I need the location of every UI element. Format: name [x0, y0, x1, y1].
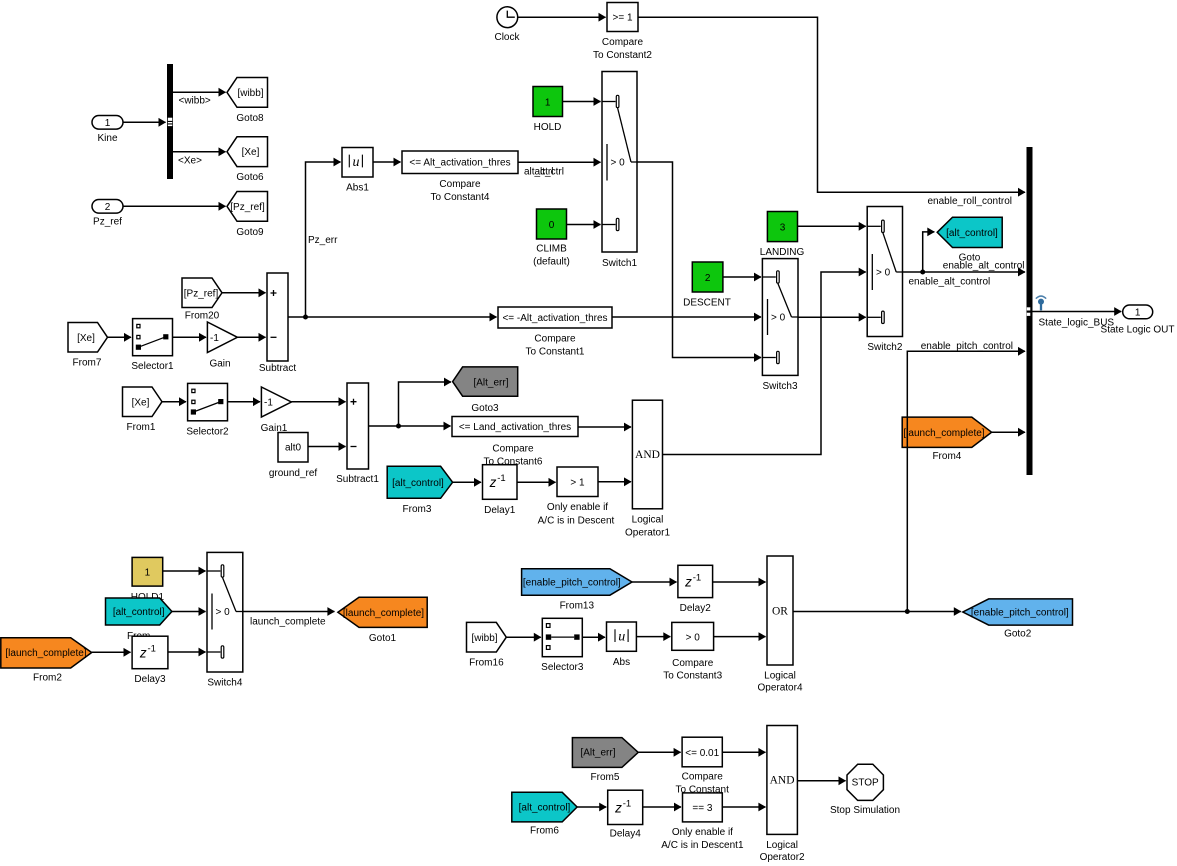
Only enable if A/C is in Descent (> 1)	[538, 467, 615, 527]
svg-text:From4: From4	[932, 451, 961, 462]
svg-text:[Xe]: [Xe]	[77, 333, 95, 344]
Compare To Constant4	[402, 151, 518, 203]
Logical Operator4 OR	[757, 556, 802, 693]
svg-text:From1: From1	[127, 422, 156, 433]
svg-text:<= Alt_activation_thres: <= Alt_activation_thres	[409, 158, 510, 169]
svg-text:z: z	[684, 574, 692, 589]
svg-text:STOP: STOP	[852, 778, 879, 789]
svg-text:To Constant1: To Constant1	[526, 347, 585, 358]
wire Gain to Subtract minus	[237, 336, 265, 338]
svg-text:From16: From16	[469, 658, 504, 669]
svg-text:[launch_complete]: [launch_complete]	[903, 428, 984, 439]
svg-text:<wibb>: <wibb>	[179, 96, 211, 107]
svg-text:[enable_pitch_control]: [enable_pitch_control]	[523, 577, 621, 588]
wire Selector2 to Gain1	[228, 401, 261, 403]
Goto9 [Pz_ref]	[227, 192, 268, 238]
svg-text:Delay4: Delay4	[610, 829, 642, 840]
wire DESCENT to Switch3	[723, 276, 761, 278]
wire Delay4 to eq3	[643, 806, 681, 808]
svg-text:Goto2: Goto2	[1004, 629, 1032, 640]
Compare To Constant1	[498, 307, 612, 358]
wire Switch1 out to Switch3 bottom	[637, 162, 761, 358]
wire eq3 to LogicalOperator2	[722, 806, 765, 808]
wire CompareToConstant3 to LogicalOperator4	[714, 636, 766, 638]
svg-text:u: u	[353, 155, 360, 170]
svg-text:> 1: > 1	[570, 478, 585, 489]
Goto3 [Alt_err]	[453, 367, 518, 414]
clock	[494, 7, 520, 43]
From16 [wibb]	[467, 622, 507, 668]
wire From2 to Delay3	[92, 651, 131, 653]
svg-text:[Pz_ref]: [Pz_ref]	[184, 288, 219, 299]
From7 [Xe]	[68, 323, 108, 369]
svg-text:[Xe]: [Xe]	[242, 147, 260, 158]
constant HOLD1	[131, 557, 165, 602]
svg-text:[enable_pitch_control]: [enable_pitch_control]	[971, 607, 1069, 618]
signal probe icon	[1036, 296, 1045, 310]
svg-text:Selector1: Selector1	[131, 361, 174, 372]
svg-text:alt0: alt0	[285, 443, 302, 454]
svg-text:From3: From3	[403, 504, 432, 515]
svg-text:Delay2: Delay2	[680, 603, 712, 614]
constant LANDING	[760, 212, 805, 259]
svg-text:2: 2	[105, 202, 111, 213]
svg-text:To Constant4: To Constant4	[431, 192, 490, 203]
svg-text:A/C is in Descent: A/C is in Descent	[538, 516, 615, 527]
svg-text:Stop Simulation: Stop Simulation	[830, 805, 900, 816]
wire State_logic_BUS	[1033, 312, 1122, 329]
svg-text:Compare: Compare	[492, 444, 534, 455]
wire Delay2 to LogicalOperator4	[713, 581, 766, 583]
svg-text:To Constant2: To Constant2	[593, 50, 652, 61]
svg-text:Switch2: Switch2	[867, 342, 902, 353]
svg-text:Pz_err: Pz_err	[308, 235, 338, 246]
wire From7 to Selector1	[108, 336, 132, 338]
From5 [Alt_err]	[572, 738, 638, 783]
From13 [enable_pitch_control]	[522, 569, 632, 612]
svg-text:Compare: Compare	[439, 179, 481, 190]
svg-text:> 0: > 0	[686, 632, 701, 643]
wire From to Switch4 mid	[172, 611, 206, 613]
svg-text:<= -Alt_activation_thres: <= -Alt_activation_thres	[502, 313, 607, 324]
wire Gain1 to Subtract1 plus	[291, 401, 345, 403]
svg-text:Goto: Goto	[959, 253, 981, 264]
wire From13 to Delay2	[632, 581, 677, 583]
wire enable_alt_control	[903, 232, 1026, 288]
wire From16 to Selector3	[506, 636, 541, 638]
svg-text:> 0: > 0	[216, 607, 231, 618]
Logical Operator1 AND	[625, 400, 670, 538]
wire Subtract out / Pz_err net	[289, 162, 497, 320]
svg-text:3: 3	[780, 222, 786, 233]
svg-text:launch_complete: launch_complete	[250, 617, 326, 628]
svg-text:2: 2	[705, 273, 711, 284]
Abs	[607, 622, 637, 668]
svg-text:<= 0.01: <= 0.01	[685, 748, 719, 759]
svg-text:== 3: == 3	[692, 803, 712, 814]
Subtract1	[336, 383, 379, 485]
Selector2	[186, 383, 229, 437]
Goto8 [wibb]	[227, 78, 268, 124]
svg-text:-1: -1	[264, 398, 273, 409]
constant DESCENT	[683, 262, 731, 308]
svg-text:Compare: Compare	[602, 37, 644, 48]
svg-text:To Constant3: To Constant3	[663, 670, 722, 681]
svg-text:(default): (default)	[533, 257, 570, 268]
svg-text:[Alt_err]: [Alt_err]	[580, 747, 615, 758]
svg-text:Operator4: Operator4	[757, 682, 802, 693]
Compare To Constant2	[593, 3, 652, 62]
svg-text:-1: -1	[693, 572, 701, 583]
wire HOLD to Switch1	[563, 101, 601, 103]
wire LogicalOperator2 to Stop	[797, 780, 845, 782]
svg-text:Compare: Compare	[682, 772, 724, 783]
svg-text:<Xe>: <Xe>	[178, 155, 202, 166]
Goto2 [enable_pitch_control]	[963, 599, 1073, 640]
svg-text:Goto1: Goto1	[369, 633, 397, 644]
Logical Operator2 AND	[760, 726, 805, 864]
svg-text:Compare: Compare	[672, 658, 714, 669]
svg-text:From20: From20	[185, 311, 220, 322]
wire CompareToConstant to LogicalOperator2	[722, 751, 765, 753]
constant HOLD	[533, 87, 563, 134]
wire From1 to Selector2	[162, 401, 186, 403]
outport 1 State Logic OUT	[1101, 305, 1175, 335]
wire CompareToConstant6 to LogicalOperator1	[578, 426, 631, 428]
svg-text:enable_roll_control: enable_roll_control	[927, 196, 1012, 207]
wire LANDING to Switch2	[798, 225, 866, 227]
wire Kine to BusSelector	[123, 121, 166, 123]
svg-text:1: 1	[145, 568, 151, 579]
inport 2 Pz_ref	[92, 200, 123, 228]
svg-text:[wibb]: [wibb]	[471, 633, 497, 644]
wire OnlyEnable to LogicalOperator1	[598, 481, 631, 483]
svg-text:CLIMB: CLIMB	[536, 244, 567, 255]
svg-text:Gain: Gain	[209, 358, 230, 369]
svg-text:[launch_complete]: [launch_complete]	[343, 608, 424, 619]
wire enable_pitch_control to bus	[907, 341, 1025, 612]
wire Abs to CompareToConstant3	[636, 636, 670, 638]
svg-text:DESCENT: DESCENT	[683, 297, 731, 308]
svg-text:Selector3: Selector3	[541, 662, 584, 673]
svg-text:z: z	[614, 800, 622, 815]
wire HOLD1 to Switch4	[163, 570, 206, 572]
Compare To Constant	[676, 737, 730, 796]
svg-text:<= Land_activation_thres: <= Land_activation_thres	[459, 422, 571, 433]
wire Switch3 to Switch2 bottom	[798, 316, 866, 318]
svg-text:u: u	[618, 630, 625, 645]
svg-text:[alt_control]: [alt_control]	[946, 228, 998, 239]
wire LogicalOperator4 to Goto2	[793, 609, 961, 614]
wire CompareToConstant1 to Switch3 mid	[612, 316, 761, 318]
Goto1 [launch_complete]	[338, 597, 427, 644]
svg-text:> 0: > 0	[876, 268, 891, 279]
svg-text:Operator2: Operator2	[760, 852, 805, 863]
svg-text:-1: -1	[210, 333, 219, 344]
svg-text:[Xe]: [Xe]	[132, 397, 150, 408]
Goto6 [Xe]	[227, 137, 268, 183]
wire alt_ctrl to Switch1 mid	[518, 162, 601, 177]
svg-text:alt_ctrl: alt_ctrl	[535, 166, 564, 177]
Switch1	[602, 72, 637, 269]
svg-text:Selector2: Selector2	[186, 426, 229, 437]
constant CLIMB (default)	[533, 209, 570, 268]
Delay4	[608, 790, 643, 839]
svg-text:From5: From5	[591, 772, 620, 783]
svg-text:Compare: Compare	[534, 334, 576, 345]
svg-text:> 0: > 0	[771, 313, 786, 324]
svg-text:HOLD: HOLD	[534, 122, 562, 133]
svg-text:Logical: Logical	[764, 670, 796, 681]
svg-text:1: 1	[545, 97, 551, 108]
wire From3 to Delay1	[453, 481, 481, 483]
svg-text:Clock: Clock	[494, 32, 520, 43]
wire Selector3 to Abs	[582, 636, 605, 638]
svg-text:z: z	[139, 645, 147, 660]
From1 [Xe]	[123, 387, 163, 433]
svg-text:From13: From13	[560, 601, 595, 612]
bus selector bar	[167, 64, 173, 179]
wire Delay3 to Switch4 bottom	[168, 651, 206, 653]
svg-text:enable_pitch_control: enable_pitch_control	[921, 341, 1013, 352]
Switch2	[867, 207, 903, 354]
wire From6 to Delay4	[577, 806, 606, 808]
Selector1	[131, 319, 174, 373]
inport 1 Kine	[92, 116, 123, 145]
Delay3	[132, 636, 168, 685]
svg-text:Kine: Kine	[97, 133, 117, 144]
svg-text:enable_alt_control: enable_alt_control	[909, 277, 991, 288]
From20 [Pz_ref]	[182, 278, 222, 322]
Switch4	[207, 552, 243, 688]
svg-text:-1: -1	[497, 473, 505, 484]
wire Pz_ref to Goto9	[123, 205, 226, 207]
svg-text:Logical: Logical	[632, 514, 664, 525]
svg-text:enable_alt_control: enable_alt_control	[943, 261, 1025, 272]
From2 [launch_complete]	[1, 638, 92, 684]
svg-text:-1: -1	[623, 798, 631, 809]
svg-text:Goto3: Goto3	[471, 403, 499, 414]
Subtract	[259, 273, 296, 374]
svg-text:z: z	[489, 475, 497, 490]
svg-text:From2: From2	[33, 672, 62, 683]
Selector3	[541, 618, 584, 673]
svg-text:[alt_control]: [alt_control]	[113, 607, 165, 618]
svg-text:> 0: > 0	[611, 158, 626, 169]
svg-text:[wibb]: [wibb]	[237, 88, 263, 99]
svg-text:Logical: Logical	[766, 840, 798, 851]
svg-text:[Pz_ref]: [Pz_ref]	[230, 202, 265, 213]
wire Clock to CompareToConstant2	[518, 16, 606, 18]
svg-text:AND: AND	[635, 449, 660, 461]
bus creator bar	[1027, 147, 1033, 475]
wire launch_complete to Goto1	[243, 612, 335, 628]
svg-text:Switch3: Switch3	[762, 381, 797, 392]
svg-text:State Logic OUT: State Logic OUT	[1101, 324, 1175, 335]
wire Xe signal	[173, 152, 226, 167]
svg-text:[alt_control]: [alt_control]	[392, 478, 444, 489]
svg-text:Switch4: Switch4	[207, 677, 242, 688]
wire LogicalOperator1 to Switch2 mid	[663, 272, 866, 455]
svg-text:LANDING: LANDING	[760, 247, 805, 258]
wire wibb signal	[173, 92, 226, 106]
From [alt_control]	[106, 598, 172, 642]
svg-text:A/C is in Descent1: A/C is in Descent1	[661, 840, 744, 851]
svg-text:Abs: Abs	[613, 657, 630, 668]
svg-text:From7: From7	[73, 358, 102, 369]
Gain1	[261, 387, 292, 434]
Delay2	[678, 565, 713, 614]
svg-text:-1: -1	[148, 643, 156, 654]
svg-text:Pz_ref: Pz_ref	[93, 217, 122, 228]
svg-text:[launch_complete]: [launch_complete]	[5, 648, 86, 659]
wire alt0 to Subtract1 minus	[308, 446, 346, 448]
Compare To Constant3	[663, 622, 722, 681]
svg-text:1: 1	[105, 118, 111, 129]
From4 [launch_complete]	[902, 417, 991, 462]
Only enable if A/C is in Descent1 (== 3)	[661, 793, 744, 851]
svg-text:>= 1: >= 1	[612, 13, 632, 24]
svg-text:[Alt_err]: [Alt_err]	[473, 377, 508, 388]
wire CLIMB to Switch1	[567, 224, 601, 226]
wire Subtract1 out net	[369, 382, 452, 429]
From6 [alt_control]	[512, 792, 577, 836]
svg-text:Operator1: Operator1	[625, 527, 670, 538]
svg-text:Abs1: Abs1	[346, 183, 369, 194]
svg-text:ground_ref: ground_ref	[269, 468, 318, 479]
svg-text:OR: OR	[772, 605, 788, 617]
svg-text:Switch1: Switch1	[602, 258, 637, 269]
Goto [alt_control]	[937, 217, 1002, 263]
svg-text:Goto8: Goto8	[236, 113, 264, 124]
svg-text:0: 0	[549, 220, 555, 231]
Delay1	[483, 465, 518, 516]
wire Abs1 to CompareToConstant4	[373, 161, 401, 163]
svg-text:1: 1	[1135, 308, 1141, 319]
wire enable_roll_control	[638, 17, 1025, 207]
svg-text:Subtract1: Subtract1	[336, 474, 379, 485]
svg-text:[alt_control]: [alt_control]	[519, 803, 571, 814]
svg-text:From6: From6	[530, 825, 559, 836]
wire Selector1 to Gain	[173, 336, 207, 338]
constant alt0 ground_ref	[269, 433, 318, 480]
svg-text:AND: AND	[770, 775, 795, 787]
svg-text:Delay3: Delay3	[134, 674, 166, 685]
svg-text:Subtract: Subtract	[259, 363, 296, 374]
Abs1	[342, 148, 373, 194]
svg-text:Only enable if: Only enable if	[672, 827, 733, 838]
Compare To Constant6	[452, 417, 578, 468]
From3 [alt_control]	[387, 466, 452, 515]
svg-text:Goto9: Goto9	[236, 227, 264, 238]
svg-text:Delay1: Delay1	[484, 505, 516, 516]
Switch3	[762, 259, 798, 392]
Stop Simulation	[830, 764, 900, 816]
wire From4 to bus	[992, 431, 1025, 433]
wire From20 to Subtract plus	[222, 292, 266, 294]
svg-text:Only enable if: Only enable if	[547, 502, 608, 513]
wire From5 to CompareToConstant	[638, 751, 680, 753]
svg-text:Goto6: Goto6	[236, 172, 264, 183]
Gain	[207, 322, 237, 369]
wire Delay1 to OnlyEnable	[517, 481, 556, 483]
